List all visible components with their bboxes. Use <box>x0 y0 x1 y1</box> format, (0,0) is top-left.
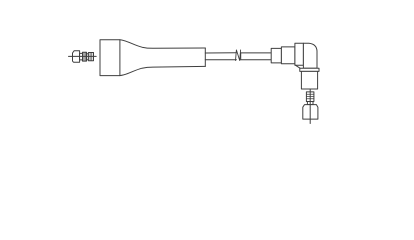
elbow horizontal section <box>295 43 304 65</box>
axis line of lower terminal <box>309 90 311 124</box>
terminal rib block 2 <box>88 53 93 61</box>
terminal neck lower <box>307 102 313 105</box>
collar band <box>300 68 319 71</box>
elbow entry cylinder <box>281 47 295 64</box>
terminal rib block 1 <box>83 52 87 61</box>
cable left segment bottom line <box>205 59 236 61</box>
boot taper lower line <box>120 66 205 75</box>
cable right segment top line <box>241 52 272 54</box>
terminal mid neck <box>87 54 89 60</box>
terminal neck <box>80 53 83 60</box>
stud rib lines <box>306 94 314 99</box>
elbow inner transition <box>295 65 300 68</box>
terminal cup <box>303 105 318 120</box>
elbow lower cylinder <box>301 71 317 89</box>
terminal tip cap (left connector) <box>73 51 80 63</box>
cable left segment top line <box>205 52 236 54</box>
rib lines 1 <box>84 52 85 61</box>
rib lines 2 <box>90 53 92 61</box>
elbow corner body <box>303 43 317 68</box>
boot rectangle (plug side) <box>100 40 120 76</box>
cable break mark <box>236 50 241 61</box>
distributor terminal ribbed stud <box>306 92 314 102</box>
cable right segment bottom line <box>241 59 272 61</box>
thick sleeve right edge <box>204 48 206 66</box>
boot taper upper line <box>120 40 205 49</box>
axis line of left terminal <box>69 55 97 57</box>
ferrule <box>271 48 281 63</box>
cable right segment left edge <box>240 53 242 60</box>
